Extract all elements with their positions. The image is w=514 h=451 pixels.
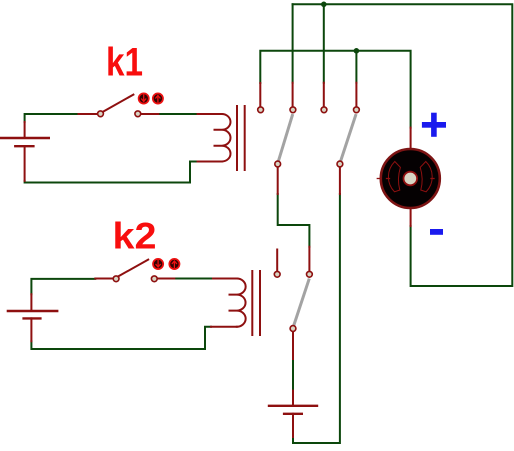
switch S2 arm — [118, 260, 148, 277]
battery B1 pins — [24, 122, 26, 181]
battery B1 plates — [0, 138, 49, 146]
relay k2 pole terminal — [290, 326, 296, 332]
relay contact pins k2 — [277, 247, 309, 359]
relay k1 arm A — [279, 116, 293, 161]
battery B3 pins — [292, 391, 294, 437]
motor M1 rim tick left — [377, 178, 381, 180]
label plus — [422, 113, 446, 137]
switch S1 arm — [103, 95, 134, 112]
switch S1 terminal left — [98, 111, 104, 117]
relay L2 core — [252, 271, 260, 335]
wire k2 bottom loop — [31, 327, 211, 349]
relay k1 contact terminals — [258, 107, 264, 113]
relay coil L2 — [230, 279, 246, 327]
motor M1 brush right — [420, 162, 432, 192]
switch S1 button up — [153, 93, 163, 103]
motor M1 brush nub right — [431, 178, 434, 180]
switch S2 terminal left — [113, 276, 119, 282]
switch S2 button down — [153, 259, 163, 269]
relay k1 arm B — [341, 116, 356, 161]
switch S2 terminal right — [151, 276, 157, 282]
wire from rail1 left end down to contact 293 — [292, 4, 294, 82]
battery B2 plates — [8, 311, 57, 318]
relay k2 contact terminals — [274, 271, 280, 277]
relay L1 core — [237, 106, 245, 170]
wire k1 battery top to switch — [25, 114, 79, 122]
motor M1 shaft — [404, 172, 418, 186]
switch S2 button up — [169, 259, 179, 269]
svg-text:k1: k1 — [106, 41, 143, 85]
wire from J1 down to contact 324 — [323, 4, 325, 82]
relay k1 pole pins — [278, 167, 340, 194]
wire k2 battery top to switch — [31, 279, 95, 294]
label minus — [430, 229, 443, 235]
motor M1 brush nub left — [387, 178, 390, 180]
motor M1 body — [381, 149, 440, 208]
svg-text:k2: k2 — [113, 216, 157, 257]
battery B3 plates — [269, 406, 317, 414]
relay coil L1 pins — [198, 114, 222, 162]
switch S2 pin wires — [95, 278, 174, 280]
wire rail2 — [260, 51, 410, 128]
wire k1 switch to coil — [158, 113, 197, 115]
wire from J2 down to contact 356 — [355, 51, 357, 83]
switch S1 button down — [139, 93, 149, 103]
relay contact pins k1 — [260, 83, 356, 107]
node junction J2 — [354, 48, 360, 54]
switch S1 terminal right — [135, 111, 141, 117]
wire pole2 down right side to bottom battery — [293, 194, 340, 443]
battery B2 pins — [30, 294, 32, 341]
node junction J1 — [321, 2, 327, 8]
motor M1 pins — [410, 128, 412, 226]
relay k2 arm — [294, 280, 309, 325]
wire pole1 S-bend to k2 contact — [278, 194, 310, 247]
relay coil L1 — [215, 114, 231, 162]
relay coil L2 pins — [211, 279, 237, 327]
wire k2 switch to coil — [174, 278, 213, 280]
wire k2 pole to bottom battery — [292, 359, 294, 391]
motor M1 brush left — [388, 162, 400, 192]
wire k1 bottom loop — [25, 162, 198, 183]
wire rail1 top — [293, 4, 513, 286]
relay k1 pole terminals — [275, 161, 281, 167]
switch S1 pin wires — [79, 113, 159, 115]
